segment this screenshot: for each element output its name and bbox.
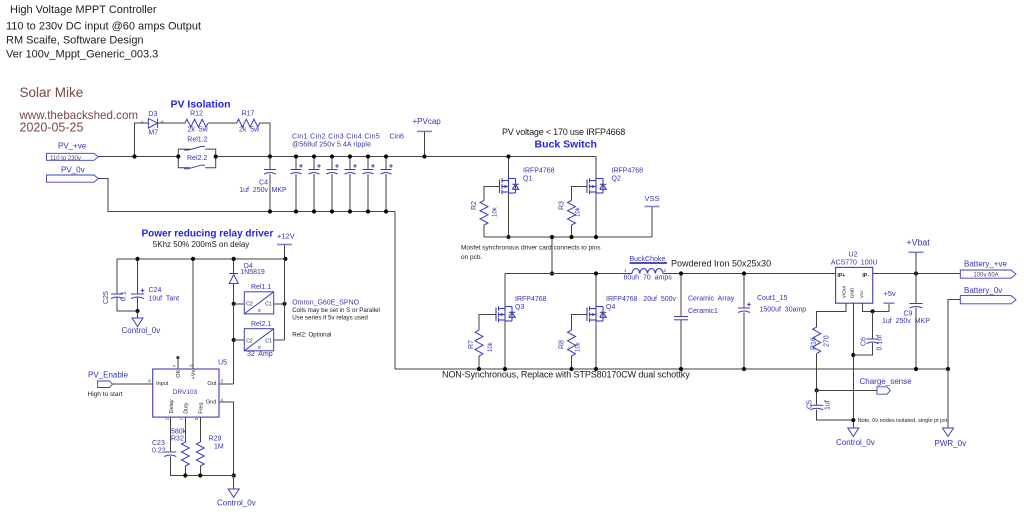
svg-text:1uf 250v MKP: 1uf 250v MKP <box>882 318 930 325</box>
switch contact Rel2.2 <box>184 165 205 169</box>
resistor R12 <box>185 119 208 127</box>
resistor R16 <box>813 327 821 354</box>
power bar VSS <box>645 206 660 208</box>
wire PV 0v to bottom rail <box>98 179 395 212</box>
svg-text:C2: C2 <box>246 338 253 344</box>
wire VSS stem <box>651 207 653 238</box>
wire C9 bottom <box>915 308 917 370</box>
wire to PWR_0v <box>947 369 949 428</box>
wire Cin2 bottom lead <box>313 174 315 212</box>
junction +Vs rail <box>191 257 195 261</box>
junction battery 0v bus <box>946 367 950 371</box>
wire Rel2.1 right <box>274 339 285 341</box>
mosfet Q3 <box>496 306 515 322</box>
svg-text:High Voltage MPPT Controller: High Voltage MPPT Controller <box>10 4 157 16</box>
wire R16 to charge sense <box>816 354 818 391</box>
capacitor Cin6 <box>381 164 393 174</box>
wire mid rail left <box>505 273 632 275</box>
svg-text:Duty: Duty <box>183 402 189 414</box>
capacitor C9 <box>910 304 923 309</box>
junction Cin6 bottom <box>384 209 388 213</box>
svg-text:+12V: +12V <box>277 231 295 240</box>
svg-text:5Khz 50% 200mS on delay: 5Khz 50% 200mS on delay <box>153 240 250 249</box>
wire Cout1 top <box>743 274 745 308</box>
junction rel1 left <box>232 302 236 306</box>
capacitor C25 <box>111 294 123 299</box>
junction Vbat <box>914 271 918 275</box>
wire +Vbat stem <box>915 252 917 273</box>
junction switch node top <box>550 235 554 239</box>
svg-text:Battery_+ve: Battery_+ve <box>964 260 1007 269</box>
svg-text:2: 2 <box>664 268 667 273</box>
svg-text:BuckChoke: BuckChoke <box>630 256 666 263</box>
junction control 0v <box>851 418 855 422</box>
svg-text:Input: Input <box>156 381 169 387</box>
svg-text:C23: C23 <box>152 440 165 447</box>
ground Control_0v left <box>132 318 143 327</box>
wire coil drive to U5 Out <box>233 340 235 384</box>
junction rel1 right <box>282 302 286 306</box>
svg-text:+Vs: +Vs <box>191 370 197 380</box>
wire Cin3 top lead <box>331 157 333 170</box>
svg-text:Ceramic Array: Ceramic Array <box>688 296 735 303</box>
svg-text:Coils may be set in S or Paral: Coils may be set in S or Parallel <box>292 307 380 314</box>
svg-text:Solar Mike: Solar Mike <box>20 85 84 100</box>
svg-text:D3: D3 <box>148 111 157 118</box>
svg-text:Rel2.1: Rel2.1 <box>251 321 271 328</box>
svg-text:Omron_G60E_SPNO: Omron_G60E_SPNO <box>292 300 359 307</box>
junction rel right <box>214 154 218 158</box>
wire Cin5 bottom lead <box>367 174 369 212</box>
svg-text:Out: Out <box>207 381 216 387</box>
wire Q3 gate to R7 <box>479 315 496 331</box>
wire Duty to R32 <box>184 417 186 442</box>
wire C9 top <box>915 274 917 304</box>
junction ceramic bottom <box>679 367 683 371</box>
wire VIOut to R16 <box>817 303 846 327</box>
wire C4 top lead <box>269 157 271 170</box>
junction ceramic top <box>679 271 683 275</box>
svg-text:C24: C24 <box>149 287 162 294</box>
svg-text:IRFP4768: IRFP4768 <box>515 296 547 303</box>
wire Cin6 bottom lead <box>385 174 387 212</box>
wire D4 cathode lead <box>233 259 235 274</box>
svg-text:IP-: IP- <box>862 273 869 279</box>
wire Freq to R29 <box>199 417 201 442</box>
IC U2 ACS770 box <box>836 267 873 303</box>
junction gnd bus right <box>232 473 236 477</box>
capacitor C5 <box>810 405 823 410</box>
wire R3 bottom <box>571 225 573 237</box>
wire +12v rail <box>117 258 285 260</box>
wire C25 bottom <box>117 298 138 312</box>
wire Rel1.1 right <box>274 303 285 305</box>
svg-text:110 to 230v: 110 to 230v <box>50 156 81 162</box>
svg-text:+Vbat: +Vbat <box>907 238 931 248</box>
svg-text:C25: C25 <box>103 291 110 304</box>
svg-text:10uf Tant: 10uf Tant <box>149 295 180 302</box>
svg-text:R8: R8 <box>559 340 566 349</box>
svg-text:High to start: High to start <box>88 391 123 398</box>
svg-text:RM Scaife, Software Design: RM Scaife, Software Design <box>6 35 144 47</box>
svg-text:1uf 250v: 1uf 250v <box>239 187 268 194</box>
svg-text:C1: C1 <box>265 338 272 344</box>
capacitor C6 <box>867 339 879 344</box>
junction +PVcap <box>422 154 426 158</box>
svg-text:Vcc: Vcc <box>859 290 865 299</box>
wire C4 bottom lead <box>269 174 271 212</box>
svg-text:Rel1.2: Rel1.2 <box>187 136 207 143</box>
mosfet Q2 <box>587 178 606 194</box>
svg-text:Q1: Q1 <box>523 176 532 183</box>
wire PV+ rail left <box>98 156 178 158</box>
svg-text:Rel2.2: Rel2.2 <box>187 155 207 162</box>
junction Cin6 top <box>384 154 388 158</box>
svg-text:on pcb.: on pcb. <box>461 254 483 261</box>
junction Cin1 bottom <box>294 209 298 213</box>
svg-text:Note, 0v nodes isolated, singl: Note, 0v nodes isolated, single pt join <box>858 418 949 424</box>
relay coil Rel2.1 <box>244 329 273 351</box>
svg-text:C9: C9 <box>904 310 913 317</box>
resistor R3 <box>568 201 576 226</box>
svg-text:2k 5w: 2k 5w <box>239 126 260 133</box>
svg-text:580k: 580k <box>171 428 187 435</box>
svg-text:K: K <box>161 120 164 125</box>
wire Gnd pin down <box>219 402 234 476</box>
capacitor C24 <box>131 289 144 299</box>
wire Delay to C23 <box>169 417 171 451</box>
svg-text:Power reducing relay driver: Power reducing relay driver <box>142 229 274 240</box>
svg-text:270: 270 <box>824 335 831 347</box>
wire gnd stub <box>852 421 854 428</box>
svg-text:PV voltage < 170 use IRFP4668: PV voltage < 170 use IRFP4668 <box>502 127 625 137</box>
wire C5 bottom to control gnd <box>817 409 854 420</box>
wire +12V down to coils <box>284 259 286 340</box>
svg-text:1uf: 1uf <box>825 400 832 410</box>
wire Cin1 bottom lead <box>295 174 297 212</box>
wire Cin4 bottom lead <box>349 174 351 212</box>
resistor R8 <box>568 330 576 356</box>
svg-text:1: 1 <box>624 268 627 273</box>
wire C5 top <box>816 390 818 404</box>
svg-text:PWR_0v: PWR_0v <box>935 439 967 448</box>
svg-text:OK: OK <box>176 370 182 378</box>
wire switch node vertical <box>551 237 553 274</box>
junction R17/C4 <box>268 154 272 158</box>
IC U5 DRV103 box <box>153 369 219 417</box>
capacitor Ceramic1 <box>674 317 688 320</box>
wire C6 top lead <box>872 311 874 338</box>
wire U2 out to battery <box>873 273 961 275</box>
resistor R7 <box>475 330 483 356</box>
svg-text:IRFP4768: IRFP4768 <box>612 168 644 175</box>
junction switch node bottom <box>550 271 554 275</box>
svg-text:Control_0v: Control_0v <box>217 499 256 508</box>
svg-text:Cout1_15: Cout1_15 <box>757 295 787 302</box>
svg-text:Rel2: Optional: Rel2: Optional <box>292 332 331 339</box>
svg-text:IRFP4768 20uf 500v: IRFP4768 20uf 500v <box>606 296 677 303</box>
underline BuckChoke <box>630 262 668 264</box>
wire Cin1 top lead <box>295 157 297 170</box>
wire PV+ rail right <box>216 156 596 158</box>
wire power ground bus <box>395 368 948 370</box>
svg-text:VIOut: VIOut <box>842 285 848 298</box>
svg-text:10k: 10k <box>488 341 494 352</box>
svg-text:C1: C1 <box>265 301 272 307</box>
wire to Charge_sense box <box>817 389 877 391</box>
wire Cin6 top lead <box>385 157 387 170</box>
svg-text:R3: R3 <box>559 201 566 210</box>
junction D3 branch <box>132 154 136 158</box>
ground PWR_0v <box>943 428 954 437</box>
svg-text:10k: 10k <box>493 206 499 217</box>
junction Cin4 top <box>348 154 352 158</box>
svg-text:2: 2 <box>164 417 169 420</box>
junction Q1 drain <box>506 154 510 158</box>
wire R2 bottom <box>483 225 485 237</box>
svg-text:+5v: +5v <box>884 289 897 298</box>
svg-text:PV_Enable: PV_Enable <box>88 370 129 379</box>
wire +PVcap stem <box>424 131 426 156</box>
svg-text:Q2: Q2 <box>612 176 621 183</box>
wire Q3 drain <box>504 274 506 307</box>
junction Cin1 top <box>294 154 298 158</box>
diode D3 <box>148 118 157 128</box>
svg-text:PV_+ve: PV_+ve <box>58 142 87 151</box>
junction +12V <box>283 257 287 261</box>
capacitor C23 <box>164 452 176 457</box>
wire to Rel2.1 <box>234 339 245 341</box>
junction C6 top <box>871 309 875 313</box>
wire buck source bus <box>484 236 652 238</box>
wire OK stub <box>177 359 179 369</box>
svg-text:0.1: 0.1 <box>121 291 128 301</box>
junction Cin3 bottom <box>330 209 334 213</box>
wire Q1 gate to R2 <box>484 187 500 201</box>
wire R8 bottom <box>571 356 573 369</box>
svg-text:2020-05-25: 2020-05-25 <box>20 121 84 135</box>
junction C6 gnd <box>851 353 855 357</box>
capacitor Cout1_15 <box>738 303 751 313</box>
svg-text:Powdered Iron 50x25x30: Powdered Iron 50x25x30 <box>671 259 771 269</box>
no-connect square OK pin <box>177 356 180 359</box>
wire +5v stem <box>888 303 890 311</box>
wire C6 bottom lead <box>853 343 872 355</box>
wire gnd lead <box>137 311 139 318</box>
junction Cout1 bottom <box>742 367 746 371</box>
svg-text:R32: R32 <box>171 436 184 443</box>
svg-text:@568uf 250v 5.4A ripple: @568uf 250v 5.4A ripple <box>292 141 371 148</box>
svg-text:U2: U2 <box>849 251 858 258</box>
wire bottom rail down to ground bus <box>394 212 396 370</box>
wire Q3 source <box>504 321 506 369</box>
wire Q4 source <box>595 321 597 369</box>
mosfet Q1 <box>500 178 519 194</box>
ground Control_0v bottom <box>228 489 239 498</box>
wire Q1 source <box>508 193 510 237</box>
junction C4 bottom <box>268 209 272 213</box>
node Charge_sense box <box>877 387 890 394</box>
capacitor Cin4 <box>345 164 357 174</box>
svg-text:C2: C2 <box>246 301 253 307</box>
wire Ceramic1 top <box>680 274 682 317</box>
svg-text:32 Amp: 32 Amp <box>247 351 273 358</box>
svg-text:1N5819: 1N5819 <box>240 269 265 276</box>
wire between coils <box>233 304 235 340</box>
wire Cin5 top lead <box>367 157 369 170</box>
svg-text:R16: R16 <box>811 337 818 350</box>
svg-text:3: 3 <box>194 417 199 420</box>
wire PV_Enable to Input <box>112 383 152 385</box>
power bar +PVcap <box>417 130 432 132</box>
junction Cin3 top <box>330 154 334 158</box>
svg-text:A: A <box>141 120 144 125</box>
svg-text:1500uf 30amp: 1500uf 30amp <box>760 307 807 314</box>
svg-text:U5: U5 <box>218 360 227 367</box>
wire D4 anode down <box>233 284 235 304</box>
resistor R29 <box>196 442 204 466</box>
svg-text:C5: C5 <box>807 400 814 409</box>
svg-text:Battery_0v: Battery_0v <box>964 286 1002 295</box>
junction Q3 source <box>503 367 507 371</box>
node Battery_+ve box <box>960 270 1016 278</box>
svg-text:C4: C4 <box>259 180 268 187</box>
junction Cin4 bottom <box>348 209 352 213</box>
wire Q1 drain <box>508 157 510 179</box>
node PV_+ve input box <box>47 153 99 160</box>
wire U2 GND down <box>852 303 854 420</box>
svg-text:Gnd: Gnd <box>206 399 216 405</box>
svg-text:R: R <box>257 345 262 349</box>
svg-text:1: 1 <box>179 417 184 420</box>
capacitor Cin3 <box>327 164 339 174</box>
svg-text:Buck Switch: Buck Switch <box>535 138 597 150</box>
svg-text:110 to 230v DC input @60 amps: 110 to 230v DC input @60 amps Output <box>6 21 201 33</box>
wire C24 bottom <box>137 298 139 312</box>
switch contact Rel1.2 <box>184 147 205 151</box>
junction R3 bottom <box>569 235 573 239</box>
svg-text:100v 60A: 100v 60A <box>973 273 998 279</box>
wire C23 to gnd bus <box>170 457 233 476</box>
wire Cin2 top lead <box>313 157 315 170</box>
wire R12 to R17 <box>208 122 237 124</box>
wire Out pin <box>219 383 234 385</box>
svg-text:Q3: Q3 <box>515 304 524 311</box>
ground Control_0v right <box>848 428 859 437</box>
node PV_Enable box <box>98 381 113 388</box>
capacitor Cin5 <box>363 164 375 174</box>
junction Cin2 top <box>312 154 316 158</box>
wire up to D3 <box>135 123 149 156</box>
junction Cin5 bottom <box>366 209 370 213</box>
node PV_0v input box <box>47 175 99 182</box>
wire to control gnd <box>233 476 235 490</box>
junction Q4 source <box>594 367 598 371</box>
svg-text:R29: R29 <box>209 435 222 442</box>
junction rel left <box>176 154 180 158</box>
junction C24 top <box>135 257 139 261</box>
capacitor Cin1 <box>291 164 303 174</box>
svg-text:R12: R12 <box>190 111 203 118</box>
junction C24 gnd <box>135 309 139 313</box>
wire C24 top <box>137 259 139 294</box>
wire R29 bottom <box>199 466 201 476</box>
svg-text:60uh 70 amps: 60uh 70 amps <box>624 274 673 281</box>
power bar +5v <box>884 302 895 304</box>
wire C25 top <box>116 259 118 294</box>
svg-text:Ver 100v_Mppt_Generic_003.3: Ver 100v_Mppt_Generic_003.3 <box>6 49 158 61</box>
svg-text:Cin6: Cin6 <box>390 134 405 141</box>
svg-text:2k 5w: 2k 5w <box>188 126 209 133</box>
svg-text:DRV103: DRV103 <box>173 389 198 396</box>
svg-text:Use series if 5v relays used: Use series if 5v relays used <box>292 315 368 322</box>
junction Q2 source <box>594 235 598 239</box>
svg-text:R2: R2 <box>471 201 478 210</box>
svg-text:IRFP4768: IRFP4768 <box>523 168 555 175</box>
junction rel2 left <box>232 338 236 342</box>
wire Q2 source <box>595 193 597 237</box>
junction Cin2 bottom <box>312 209 316 213</box>
capacitor Cin2 <box>309 164 321 174</box>
wire Cout1 bottom <box>743 313 745 370</box>
junction R29 gnd <box>198 473 202 477</box>
wire Q2 drain <box>595 157 597 179</box>
svg-text:10k: 10k <box>576 206 582 217</box>
wire R7 bottom <box>478 356 480 369</box>
svg-text:Mosfet synchronous driver card: Mosfet synchronous driver card connects … <box>461 244 601 251</box>
junction Cin5 top <box>366 154 370 158</box>
svg-text:R7: R7 <box>468 340 475 349</box>
junction R32 gnd <box>183 473 187 477</box>
junction R8 bottom <box>569 367 573 371</box>
mosfet Q4 <box>587 306 606 322</box>
power bar +12V <box>277 244 292 246</box>
svg-text:Rel1.1: Rel1.1 <box>251 284 271 291</box>
svg-text:MKP: MKP <box>272 187 288 194</box>
wire Q2 gate to R3 <box>572 187 588 201</box>
junction Q4 drain <box>594 271 598 275</box>
power bar +Vbat <box>909 251 924 253</box>
svg-text:IP+: IP+ <box>837 273 845 279</box>
junction charge sense <box>815 388 819 392</box>
junction Q1 source <box>506 235 510 239</box>
svg-text:PV_0v: PV_0v <box>61 165 85 174</box>
resistor R2 <box>480 201 488 226</box>
svg-text:GND: GND <box>850 287 856 298</box>
svg-text:0.1uf: 0.1uf <box>877 335 884 351</box>
relay contacts Rel1.2/Rel2.2 box <box>178 149 215 168</box>
junction D4 top <box>232 257 236 261</box>
resistor R17 <box>237 119 260 127</box>
resistor R32 <box>181 442 189 466</box>
svg-text:7: 7 <box>172 364 177 367</box>
svg-text:Freq: Freq <box>198 402 204 413</box>
svg-text:5: 5 <box>221 379 224 384</box>
wire Q4 drain <box>595 274 597 307</box>
svg-text:Ceramic1: Ceramic1 <box>688 308 718 315</box>
svg-text:Charge_sense: Charge_sense <box>860 377 913 386</box>
capacitor C4 <box>264 170 276 175</box>
wire +12V stem <box>284 245 286 259</box>
junction Cout1 top <box>742 271 746 275</box>
svg-text:VSS: VSS <box>644 194 659 203</box>
svg-text:ACS770 100U: ACS770 100U <box>831 259 878 266</box>
svg-text:10k: 10k <box>576 341 582 352</box>
relay coil Rel1.1 <box>244 292 273 314</box>
junction C9 bottom <box>914 367 918 371</box>
svg-text:8: 8 <box>148 379 151 384</box>
wire R32 bottom <box>184 466 186 476</box>
